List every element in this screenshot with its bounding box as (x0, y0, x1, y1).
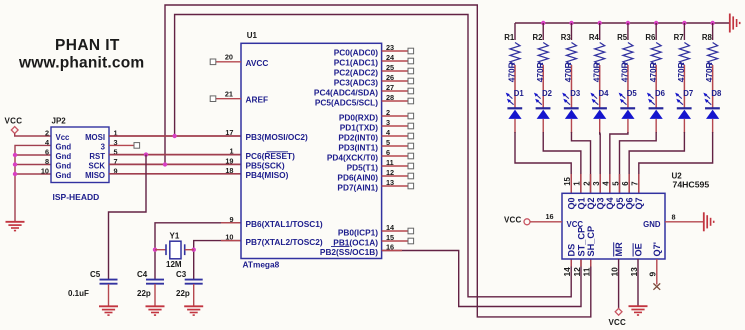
svg-text:VCC: VCC (504, 215, 522, 224)
svg-text:GND: GND (643, 220, 661, 229)
svg-text:1: 1 (229, 147, 233, 156)
svg-text:SH_CP: SH_CP (586, 226, 596, 257)
svg-text:C3: C3 (176, 270, 187, 279)
svg-text:R6: R6 (645, 33, 656, 42)
svg-text:D7: D7 (683, 89, 693, 98)
svg-text:470R: 470R (563, 62, 573, 82)
svg-text:12M: 12M (166, 260, 182, 269)
svg-text:2: 2 (582, 181, 591, 186)
svg-text:AVCC: AVCC (246, 58, 269, 68)
svg-text:AREF: AREF (246, 95, 269, 105)
svg-text:PD1(TXD): PD1(TXD) (340, 122, 378, 132)
svg-text:5: 5 (386, 138, 390, 147)
svg-text:RST: RST (89, 152, 105, 161)
svg-text:470R: 470R (704, 62, 714, 82)
svg-text:www.phanit.com: www.phanit.com (18, 54, 144, 71)
svg-text:Q1: Q1 (576, 197, 586, 209)
svg-text:9: 9 (229, 215, 233, 224)
svg-text:PC1(ADC1): PC1(ADC1) (334, 57, 378, 67)
svg-text:Vcc: Vcc (56, 133, 71, 142)
svg-text:R3: R3 (561, 33, 572, 42)
svg-text:ATmega8: ATmega8 (243, 259, 280, 269)
svg-text:4: 4 (602, 181, 611, 186)
svg-text:PC5(ADC5/SCL): PC5(ADC5/SCL) (315, 97, 378, 107)
svg-text:U1: U1 (247, 31, 258, 40)
svg-text:21: 21 (225, 90, 233, 99)
svg-text:PB0(ICP1): PB0(ICP1) (338, 227, 378, 237)
svg-text:26: 26 (386, 73, 394, 82)
svg-text:17: 17 (225, 128, 233, 137)
svg-text:Q2: Q2 (586, 197, 596, 209)
svg-text:27: 27 (386, 83, 394, 92)
svg-text:470R: 470R (535, 62, 545, 82)
svg-text:3: 3 (386, 118, 390, 127)
svg-text:Q0: Q0 (567, 197, 577, 209)
svg-text:12: 12 (386, 168, 394, 177)
svg-text:10: 10 (225, 233, 233, 242)
svg-text:PC4(ADC4/SDA): PC4(ADC4/SDA) (314, 87, 378, 97)
svg-text:PB1(OC1A): PB1(OC1A) (333, 237, 378, 247)
svg-text:R8: R8 (702, 33, 713, 42)
svg-text:ISP-HEADD: ISP-HEADD (53, 192, 100, 202)
svg-text:3: 3 (101, 142, 106, 151)
svg-text:VCC: VCC (5, 117, 23, 126)
svg-text:16: 16 (546, 212, 554, 221)
svg-text:PD4(XCK/T0): PD4(XCK/T0) (327, 152, 378, 162)
svg-text:6: 6 (45, 148, 49, 157)
svg-text:22p: 22p (176, 289, 190, 298)
svg-text:28: 28 (386, 93, 394, 102)
svg-text:D8: D8 (711, 89, 722, 98)
svg-text:9: 9 (648, 272, 658, 277)
svg-text:14: 14 (386, 223, 395, 232)
svg-text:D4: D4 (598, 89, 609, 98)
svg-text:470R: 470R (676, 62, 686, 82)
svg-text:PC6(RESET): PC6(RESET) (246, 151, 296, 161)
svg-text:23: 23 (386, 43, 394, 52)
svg-text:C5: C5 (90, 270, 101, 279)
svg-text:PD0(RXD): PD0(RXD) (339, 112, 378, 122)
svg-text:Gnd: Gnd (56, 152, 72, 161)
svg-text:PC0(ADC0): PC0(ADC0) (334, 47, 378, 57)
svg-text:22p: 22p (137, 289, 151, 298)
svg-text:PD2(INT0): PD2(INT0) (338, 132, 378, 142)
svg-text:PD6(AIN0): PD6(AIN0) (337, 172, 378, 182)
svg-text:Q7: Q7 (634, 197, 644, 209)
svg-text:1: 1 (573, 181, 582, 186)
svg-text:Q4: Q4 (605, 197, 615, 209)
svg-text:D3: D3 (570, 89, 581, 98)
svg-text:Gnd: Gnd (56, 171, 72, 180)
svg-text:18: 18 (225, 166, 233, 175)
svg-text:6: 6 (386, 148, 390, 157)
svg-text:Q7': Q7' (652, 242, 662, 256)
svg-text:ST_CP: ST_CP (576, 227, 586, 257)
svg-text:R2: R2 (532, 33, 543, 42)
svg-text:PHAN IT: PHAN IT (55, 37, 120, 54)
svg-text:470R: 470R (620, 62, 630, 82)
svg-text:D6: D6 (655, 89, 666, 98)
svg-text:8: 8 (45, 157, 49, 166)
svg-text:Q5: Q5 (615, 197, 625, 209)
svg-text:13: 13 (386, 178, 394, 187)
svg-text:10: 10 (41, 167, 49, 176)
svg-text:R5: R5 (617, 33, 628, 42)
svg-text:DS: DS (567, 244, 577, 257)
svg-text:5: 5 (611, 181, 620, 186)
svg-text:74HC595: 74HC595 (673, 180, 710, 190)
svg-text:C4: C4 (137, 270, 148, 279)
svg-text:D5: D5 (627, 89, 638, 98)
svg-text:MR: MR (614, 242, 624, 257)
svg-text:2: 2 (386, 108, 390, 117)
svg-text:14: 14 (562, 267, 572, 277)
svg-text:PC2(ADC2): PC2(ADC2) (334, 67, 378, 77)
svg-text:3: 3 (592, 181, 601, 186)
svg-text:R1: R1 (504, 33, 515, 42)
svg-text:470R: 470R (648, 62, 658, 82)
svg-text:PB3(MOSI/OC2): PB3(MOSI/OC2) (246, 132, 308, 142)
svg-text:R7: R7 (674, 33, 684, 42)
svg-text:OE: OE (633, 243, 643, 256)
svg-text:7: 7 (631, 181, 640, 185)
svg-text:D1: D1 (514, 89, 525, 98)
svg-text:PB2(SS/OC1B): PB2(SS/OC1B) (320, 247, 378, 257)
svg-text:6: 6 (621, 181, 630, 186)
svg-text:0.1uF: 0.1uF (68, 289, 89, 298)
svg-text:R4: R4 (589, 33, 600, 42)
svg-text:PB6(XTAL1/TOSC1): PB6(XTAL1/TOSC1) (246, 219, 323, 229)
svg-text:15: 15 (386, 233, 394, 242)
svg-text:Q3: Q3 (596, 197, 606, 209)
svg-text:Gnd: Gnd (56, 162, 72, 171)
svg-text:VCC: VCC (609, 318, 627, 327)
svg-text:10: 10 (609, 267, 619, 277)
svg-text:24: 24 (386, 53, 395, 62)
svg-text:11: 11 (386, 158, 394, 167)
svg-text:JP2: JP2 (52, 117, 67, 126)
svg-text:Gnd: Gnd (56, 142, 72, 151)
svg-text:PB4(MISO): PB4(MISO) (246, 170, 289, 180)
svg-text:Q6: Q6 (625, 197, 635, 209)
svg-text:19: 19 (225, 156, 233, 165)
svg-text:2: 2 (45, 129, 49, 138)
svg-text:470R: 470R (591, 62, 601, 82)
svg-text:PD5(T1): PD5(T1) (347, 162, 379, 172)
svg-text:20: 20 (225, 53, 233, 62)
svg-text:12: 12 (572, 267, 582, 277)
svg-text:8: 8 (672, 212, 676, 221)
svg-text:PD3(INT1): PD3(INT1) (338, 142, 378, 152)
svg-text:D2: D2 (542, 89, 553, 98)
svg-text:15: 15 (563, 176, 572, 185)
svg-text:11: 11 (582, 267, 592, 276)
svg-text:Y1: Y1 (170, 232, 180, 241)
svg-text:SCK: SCK (89, 162, 106, 171)
svg-text:MISO: MISO (85, 171, 105, 180)
svg-text:MOSI: MOSI (85, 133, 105, 142)
svg-text:25: 25 (386, 63, 394, 72)
svg-text:PD7(AIN1): PD7(AIN1) (337, 182, 378, 192)
svg-text:PB7(XTAL2/TOSC2): PB7(XTAL2/TOSC2) (246, 237, 323, 247)
svg-text:PC3(ADC3): PC3(ADC3) (334, 77, 378, 87)
svg-text:470R: 470R (507, 62, 517, 82)
svg-text:13: 13 (629, 267, 639, 277)
